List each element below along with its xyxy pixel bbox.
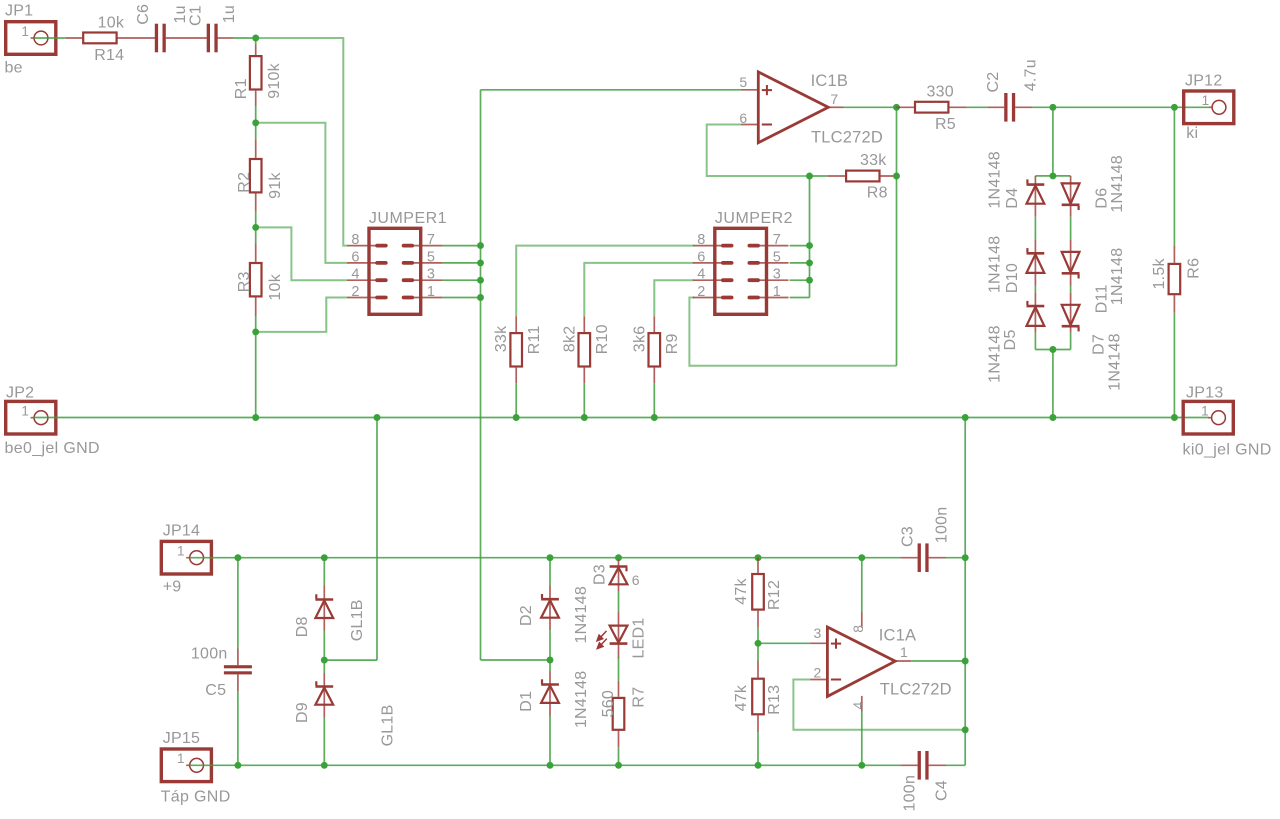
junction R8 left	[806, 173, 813, 180]
svg-text:+9: +9	[163, 579, 182, 596]
svg-text:be0_jel GND: be0_jel GND	[5, 440, 100, 457]
resistor R14	[66, 37, 84, 39]
diode D2	[549, 558, 551, 586]
svg-text:1: 1	[21, 404, 29, 419]
wire node A down to R1	[255, 38, 257, 45]
resistor R9	[653, 316, 655, 332]
junction rail C3	[962, 554, 969, 561]
svg-text:4.7u: 4.7u	[1023, 59, 1040, 91]
svg-text:1N4148: 1N4148	[573, 586, 590, 644]
svg-text:3: 3	[814, 625, 822, 641]
svg-text:JP14: JP14	[163, 522, 200, 539]
diode D3	[618, 560, 620, 567]
wire diode chain to GND bus	[1052, 350, 1054, 418]
resistor R10	[583, 316, 585, 332]
svg-text:7: 7	[773, 232, 781, 248]
wire diode chain top bar	[1035, 175, 1070, 177]
node A junction	[252, 35, 259, 42]
svg-text:330: 330	[927, 84, 954, 101]
wire diode chain bottom bar	[1035, 349, 1070, 351]
junction D-chain top tap	[1049, 104, 1056, 111]
junction rail R13 bottom	[755, 762, 762, 769]
junction B4	[477, 294, 484, 301]
svg-text:7: 7	[830, 91, 838, 107]
svg-text:1N4148: 1N4148	[987, 325, 1004, 383]
svg-text:1N4148: 1N4148	[1109, 248, 1126, 306]
svg-text:R14: R14	[94, 47, 124, 64]
diode D6	[1070, 176, 1072, 184]
svg-text:1N4148: 1N4148	[987, 236, 1004, 294]
svg-text:ki: ki	[1186, 125, 1198, 142]
diode D9	[323, 660, 325, 673]
svg-text:IC1B: IC1B	[811, 72, 848, 90]
svg-text:5: 5	[427, 249, 435, 265]
wire D11 to D7	[1070, 286, 1072, 293]
wire JUMPER2 pin 1 to bus	[790, 297, 810, 299]
capacitor C4	[900, 764, 917, 766]
wire tap down to diode chain	[1052, 107, 1054, 176]
capacitor C6	[166, 37, 207, 39]
svg-text:8: 8	[850, 625, 866, 633]
svg-text:R10: R10	[594, 324, 611, 354]
svg-text:R2: R2	[236, 172, 253, 193]
junction rail D8	[321, 554, 328, 561]
svg-text:1N4148: 1N4148	[987, 151, 1004, 209]
junction IC1A fb	[962, 726, 969, 733]
junction R6 top tap	[1171, 104, 1178, 111]
wire node B to rectifier mid	[481, 659, 551, 661]
svg-text:100n: 100n	[191, 646, 228, 663]
junction bus diode chain	[1049, 414, 1056, 421]
svg-text:2: 2	[697, 284, 705, 300]
svg-text:C1: C1	[188, 5, 205, 26]
svg-text:TLC272D: TLC272D	[880, 681, 952, 699]
junction bus virtual gnd	[962, 414, 969, 421]
wire feedback to JUMPER2 pin 2	[689, 298, 896, 366]
svg-text:JUMPER1: JUMPER1	[369, 210, 447, 227]
svg-text:1u: 1u	[221, 5, 238, 23]
wire node A to JUMPER1 pin 8	[256, 38, 347, 246]
junction rail D2	[547, 554, 554, 561]
svg-text:5: 5	[739, 74, 747, 90]
svg-text:D5: D5	[1002, 329, 1019, 350]
wire JUMPER2 pin 4 to R9	[654, 280, 694, 316]
junction IC1A out	[962, 658, 969, 665]
wire JUMPER2 pin 7 to bus	[790, 245, 810, 247]
svg-text:R7: R7	[630, 687, 647, 708]
wire C1 to node A	[233, 37, 256, 39]
wire C2 to JP12	[1032, 106, 1208, 108]
svg-text:33k: 33k	[860, 152, 887, 169]
svg-text:JUMPER2: JUMPER2	[715, 210, 793, 227]
resistor R11	[515, 316, 517, 332]
junction bus R9	[651, 414, 658, 421]
svg-text:1: 1	[1202, 93, 1210, 108]
svg-text:R8: R8	[867, 185, 888, 202]
svg-text:D2: D2	[518, 605, 535, 626]
wire JP1 to R14	[34, 37, 66, 39]
junction R12-R13	[755, 640, 762, 647]
svg-text:D8: D8	[294, 616, 311, 637]
svg-text:JP15: JP15	[163, 730, 200, 747]
svg-text:4: 4	[351, 267, 359, 283]
svg-text:1: 1	[773, 284, 781, 300]
wire virtual gnd vertical	[964, 418, 966, 766]
svg-text:3: 3	[427, 267, 435, 283]
svg-text:1: 1	[427, 284, 435, 300]
svg-text:LED1: LED1	[630, 617, 647, 658]
connector JP14	[161, 541, 211, 574]
wire D5 to bottom bar	[1034, 333, 1036, 350]
svg-text:4: 4	[697, 267, 705, 283]
svg-text:33k: 33k	[493, 325, 510, 352]
wire IC1B pin6 feedback	[707, 125, 810, 177]
junction bus R3	[252, 414, 259, 421]
junction bus R11	[513, 414, 520, 421]
svg-text:JP12: JP12	[1185, 72, 1222, 89]
svg-text:R13: R13	[766, 685, 783, 715]
svg-text:R11: R11	[526, 325, 543, 354]
op-amp IC1B	[741, 89, 758, 91]
junction diode chain top	[1049, 172, 1056, 179]
junction R8 right	[893, 173, 900, 180]
svg-text:1: 1	[900, 644, 908, 660]
diode D1	[549, 660, 551, 671]
wire JUMPER2 pin 3 to bus	[790, 279, 810, 281]
svg-text:2: 2	[351, 284, 359, 300]
svg-text:D1: D1	[518, 691, 535, 712]
junction C	[893, 104, 900, 111]
diode D4	[1034, 176, 1036, 185]
wire 0V rail	[190, 764, 901, 766]
svg-text:1: 1	[177, 751, 185, 766]
junction J2-5	[806, 259, 813, 266]
wire IC1B pin7 to node C	[844, 106, 897, 108]
resistor R8	[810, 175, 828, 177]
svg-text:1N4148: 1N4148	[573, 671, 590, 729]
svg-text:D7: D7	[1091, 334, 1108, 355]
junction J2-3	[806, 277, 813, 284]
svg-text:1u: 1u	[172, 5, 189, 23]
resistor R6	[1173, 107, 1175, 245]
wire JUMPER2 right vertical	[809, 176, 811, 298]
svg-text:C3: C3	[900, 526, 917, 547]
svg-text:8k2: 8k2	[561, 326, 578, 353]
svg-text:8: 8	[351, 232, 359, 248]
junction rail IC1A pin8	[858, 554, 865, 561]
junction bus R6	[1171, 414, 1178, 421]
jumper JUMPER2	[715, 228, 767, 314]
svg-text:JP13: JP13	[1186, 384, 1223, 401]
svg-text:8: 8	[697, 232, 705, 248]
diode D7	[1070, 293, 1072, 305]
svg-text:10k: 10k	[267, 273, 284, 300]
junction B3	[477, 277, 484, 284]
wire D7 to bottom bar	[1070, 333, 1072, 350]
wire D4 to D10	[1034, 217, 1036, 240]
diode D11	[1070, 239, 1072, 252]
svg-text:JP2: JP2	[6, 384, 34, 401]
wire JUMPER2 pin 8 to R11	[516, 246, 694, 317]
led LED1	[618, 611, 620, 625]
wire rectifier mid to bus	[324, 659, 377, 661]
svg-text:100n: 100n	[934, 507, 951, 544]
svg-text:D10: D10	[1004, 263, 1021, 293]
svg-text:C5: C5	[205, 682, 226, 699]
junction R1-R2	[252, 119, 259, 126]
junction rail D9 bottom	[321, 762, 328, 769]
svg-text:D9: D9	[294, 702, 311, 723]
connector JP12	[1184, 91, 1234, 124]
wire JUMPER2 pin 6 to R10	[584, 263, 694, 316]
junction rail C5 top	[234, 554, 241, 561]
junction rectifier mid left	[321, 657, 328, 664]
svg-text:R6: R6	[1185, 258, 1202, 279]
svg-text:GL1B: GL1B	[379, 704, 396, 746]
junction rail C5 bottom	[234, 762, 241, 769]
wire R1 to R2	[255, 106, 257, 139]
svg-text:47k: 47k	[733, 578, 750, 605]
svg-text:560: 560	[600, 690, 617, 717]
resistor R2	[255, 139, 257, 158]
svg-text:TLC272D: TLC272D	[811, 128, 883, 146]
wire R2-R3 node to JUMPER1 pin 4	[256, 227, 347, 280]
diode D8	[323, 558, 325, 586]
svg-text:6: 6	[351, 249, 359, 265]
svg-text:IC1A: IC1A	[879, 626, 916, 644]
svg-text:91k: 91k	[267, 172, 284, 199]
wire R3 to GND bus	[255, 316, 257, 418]
resistor R3	[255, 244, 257, 262]
wire R2 to R3	[255, 212, 257, 244]
connector JP2	[6, 401, 56, 434]
svg-text:1N4148: 1N4148	[1109, 155, 1126, 213]
wire JUMPER1 pin 7 to node B	[443, 245, 481, 247]
svg-text:3k6: 3k6	[631, 326, 648, 353]
wire JUMPER1 pin 1 to node B	[443, 297, 481, 299]
svg-text:2: 2	[814, 665, 822, 681]
wire R1-R2 node to JUMPER1 pin 6	[256, 123, 347, 263]
svg-text:1: 1	[1201, 404, 1209, 419]
svg-text:910k: 910k	[266, 62, 283, 98]
svg-text:C4: C4	[933, 780, 950, 801]
junction B2	[477, 259, 484, 266]
svg-text:C2: C2	[985, 72, 1002, 93]
junction rail IC1A pin4	[858, 762, 865, 769]
wire R12-R13 node to IC1A pin 3	[758, 642, 810, 644]
svg-text:6: 6	[739, 110, 747, 126]
junction bus rectifier mid	[374, 414, 381, 421]
junction B1	[477, 242, 484, 249]
resistor R13	[757, 661, 759, 678]
wire JUMPER1 pin 3 to node B	[443, 279, 481, 281]
svg-text:Táp GND: Táp GND	[161, 788, 231, 805]
junction diode chain bottom	[1049, 346, 1056, 353]
resistor R5	[897, 106, 916, 108]
svg-text:10k: 10k	[98, 15, 125, 32]
svg-text:be: be	[5, 60, 23, 77]
svg-text:R3: R3	[236, 271, 253, 292]
svg-text:6: 6	[632, 572, 640, 588]
connector JP1	[6, 22, 56, 55]
svg-text:1N4148: 1N4148	[1107, 333, 1124, 391]
svg-text:GL1B: GL1B	[349, 599, 366, 641]
wire node B to IC1B pin 5	[481, 89, 741, 91]
connector JP15	[161, 749, 211, 782]
svg-text:JP1: JP1	[5, 3, 33, 20]
junction R2-R3	[252, 224, 259, 231]
wire node B vertical bus	[480, 90, 482, 660]
diode D10	[1034, 239, 1036, 253]
wire R5 to C2	[967, 106, 988, 108]
diode D5	[1034, 293, 1036, 307]
junction rail R7 bottom	[615, 762, 622, 769]
junction rail D1 bottom	[547, 762, 554, 769]
connector JP13	[1183, 401, 1233, 434]
wire node C vertical	[896, 107, 898, 365]
svg-text:4: 4	[850, 702, 866, 710]
wire JUMPER1 pin 5 to node B	[443, 262, 481, 264]
svg-text:ki0_jel GND: ki0_jel GND	[1183, 442, 1272, 459]
resistor R7	[618, 681, 620, 697]
capacitor C3	[900, 557, 917, 559]
svg-text:1.5k: 1.5k	[1151, 258, 1168, 290]
junction bus R10	[581, 414, 588, 421]
svg-text:D4: D4	[1004, 188, 1021, 209]
svg-text:100n: 100n	[902, 775, 919, 812]
wire JUMPER2 pin 5 to bus	[790, 262, 810, 264]
svg-text:47k: 47k	[733, 684, 750, 711]
svg-text:D3: D3	[591, 564, 608, 585]
resistor R1	[250, 56, 262, 89]
svg-text:5: 5	[773, 249, 781, 265]
wire IC1A pin1 out	[911, 660, 965, 662]
resistor R12	[757, 558, 759, 573]
svg-text:3: 3	[773, 267, 781, 283]
svg-text:7: 7	[427, 232, 435, 248]
svg-text:R5: R5	[935, 116, 956, 133]
wire GND bus	[33, 417, 1209, 419]
svg-text:1: 1	[177, 544, 185, 559]
jumper JUMPER1	[369, 228, 421, 314]
wire JUMPER1 pin 2 to R3 bottom	[256, 298, 347, 332]
svg-text:6: 6	[697, 249, 705, 265]
junction rail D3	[615, 554, 622, 561]
op-amp IC1A	[810, 642, 827, 644]
junction rectifier mid right	[547, 657, 554, 664]
capacitor C1	[217, 37, 233, 39]
wire +9 rail	[190, 557, 901, 559]
wire D10 to D5	[1034, 286, 1036, 293]
svg-text:1: 1	[21, 24, 29, 39]
wire IC1A pin2 feedback	[793, 680, 965, 730]
capacitor C5	[237, 558, 239, 649]
svg-text:R1: R1	[233, 78, 250, 99]
svg-text:R9: R9	[664, 333, 681, 354]
svg-text:C6: C6	[135, 4, 152, 25]
svg-text:R12: R12	[766, 580, 783, 610]
capacitor C2	[987, 106, 1004, 108]
junction J2-7	[806, 242, 813, 249]
junction rail R12	[755, 554, 762, 561]
wire D6 to D11	[1070, 217, 1072, 240]
junction R3 pin2 tap	[252, 328, 259, 335]
